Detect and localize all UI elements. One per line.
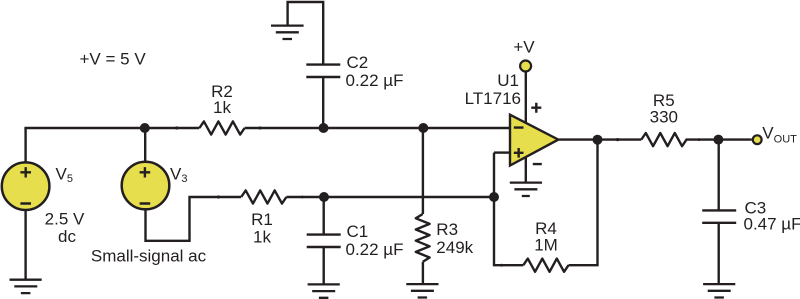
wire R3 top stub from main net bbox=[422, 128, 424, 214]
svg-text:1M: 1M bbox=[534, 236, 558, 255]
svg-text:0.22 µF: 0.22 µF bbox=[346, 240, 404, 259]
svg-text:C2: C2 bbox=[347, 53, 369, 72]
svg-text:R1: R1 bbox=[251, 210, 273, 229]
svg-text:1k: 1k bbox=[253, 228, 271, 247]
label V3 bbox=[170, 165, 187, 186]
svg-text:LT1716: LT1716 bbox=[465, 89, 521, 108]
ground (R3) bbox=[406, 284, 438, 297]
wire C3 top stub bbox=[718, 140, 720, 211]
label R5 value bbox=[650, 91, 678, 126]
svg-text:Small-signal ac: Small-signal ac bbox=[91, 247, 207, 266]
svg-text:+V = 5 V: +V = 5 V bbox=[80, 50, 147, 69]
label +V supply bbox=[513, 38, 535, 57]
resistor R2 bbox=[175, 121, 261, 134]
capacitor C3 bbox=[702, 210, 736, 222]
wire feedback left vertical (non-inverting node down to R4) bbox=[494, 153, 523, 266]
label R1 value bbox=[251, 210, 273, 247]
label +V = 5 V bbox=[80, 50, 147, 69]
ground (op-amp negative supply) bbox=[510, 183, 542, 196]
wire stub from main net down to V3 bbox=[144, 128, 146, 163]
node junction C3/output net bbox=[713, 135, 723, 145]
wire main horizontal net (right segment to op-amp inverting input) bbox=[245, 127, 510, 129]
ground (C3) bbox=[703, 284, 735, 297]
node junction feedback/R1 net bbox=[489, 192, 499, 202]
voltage source V3 bbox=[122, 162, 170, 210]
op-amp U1 (LT1716 comparator) bbox=[510, 103, 558, 166]
svg-text:1k: 1k bbox=[213, 98, 231, 117]
wire op-amp bottom supply pin to ground bbox=[525, 157, 527, 183]
svg-text:dc: dc bbox=[58, 227, 76, 246]
label VOUT bbox=[762, 123, 797, 145]
node junction V3/main net bbox=[140, 123, 150, 133]
wire R3 bottom to ground bbox=[422, 262, 424, 284]
wire C2 bottom plate to main net bbox=[322, 77, 324, 128]
resistor R1 bbox=[217, 190, 304, 203]
svg-text:R3: R3 bbox=[436, 220, 458, 239]
label V5 value 2.5 V dc bbox=[45, 210, 85, 247]
svg-text:U1: U1 bbox=[497, 71, 519, 90]
svg-text:2.5 V: 2.5 V bbox=[45, 210, 85, 229]
wire stub from main net down to V5 bbox=[24, 128, 26, 164]
wire op-amp non-inverting input bbox=[494, 151, 510, 153]
label C1 value bbox=[346, 222, 404, 259]
wire V5 bottom to ground bbox=[24, 210, 26, 280]
VOUT terminal bbox=[753, 135, 762, 144]
wire R5 right lead to VOUT terminal bbox=[686, 138, 752, 140]
+V terminal bbox=[520, 61, 531, 72]
voltage source V5 bbox=[2, 162, 50, 210]
wire +V terminal down to op-amp top bbox=[525, 73, 527, 124]
wire C3 bottom to ground bbox=[718, 223, 720, 284]
svg-text:0.47 µF: 0.47 µF bbox=[744, 215, 800, 234]
label R3 value bbox=[436, 220, 473, 257]
svg-text:249k: 249k bbox=[436, 238, 473, 257]
label U1 LT1716 bbox=[465, 71, 521, 108]
svg-text:C1: C1 bbox=[347, 222, 369, 241]
capacitor C1 bbox=[307, 235, 341, 247]
wire C2 top to upper ground corner bbox=[288, 2, 324, 65]
wire C1 top stub bbox=[323, 197, 325, 234]
svg-text:+V: +V bbox=[513, 38, 535, 57]
resistor R5 bbox=[616, 133, 700, 146]
wire V3 bottom loop to R1 bbox=[146, 197, 242, 241]
wire main horizontal net (left segment, node A) bbox=[24, 127, 199, 129]
label C3 value bbox=[744, 199, 800, 234]
label R4 value bbox=[534, 219, 558, 254]
resistor R3 (vertical) bbox=[416, 214, 430, 262]
ground (top, for C2) bbox=[271, 26, 304, 39]
wire R4 right lead up to output node bbox=[569, 140, 598, 266]
wire C1 bottom to ground bbox=[323, 247, 325, 285]
wire op-amp output to R5 bbox=[558, 138, 641, 140]
ground (V5) bbox=[10, 280, 42, 293]
svg-text:330: 330 bbox=[650, 107, 678, 126]
label R2 value bbox=[211, 82, 233, 117]
ground (C1) bbox=[308, 284, 340, 297]
resistor R4 bbox=[500, 259, 568, 272]
capacitor C2 bbox=[306, 65, 340, 77]
node junction output/feedback bbox=[593, 135, 603, 145]
label Small-signal ac bbox=[91, 247, 207, 266]
node junction C2/main net bbox=[319, 123, 329, 133]
label V5 bbox=[56, 165, 73, 186]
wire R1 right lead to feedback node bbox=[286, 196, 494, 198]
node junction R3/main net bbox=[418, 123, 428, 133]
svg-text:0.22 µF: 0.22 µF bbox=[346, 71, 404, 90]
node junction C1/R1 net bbox=[319, 192, 329, 202]
label C2 value bbox=[346, 53, 404, 90]
